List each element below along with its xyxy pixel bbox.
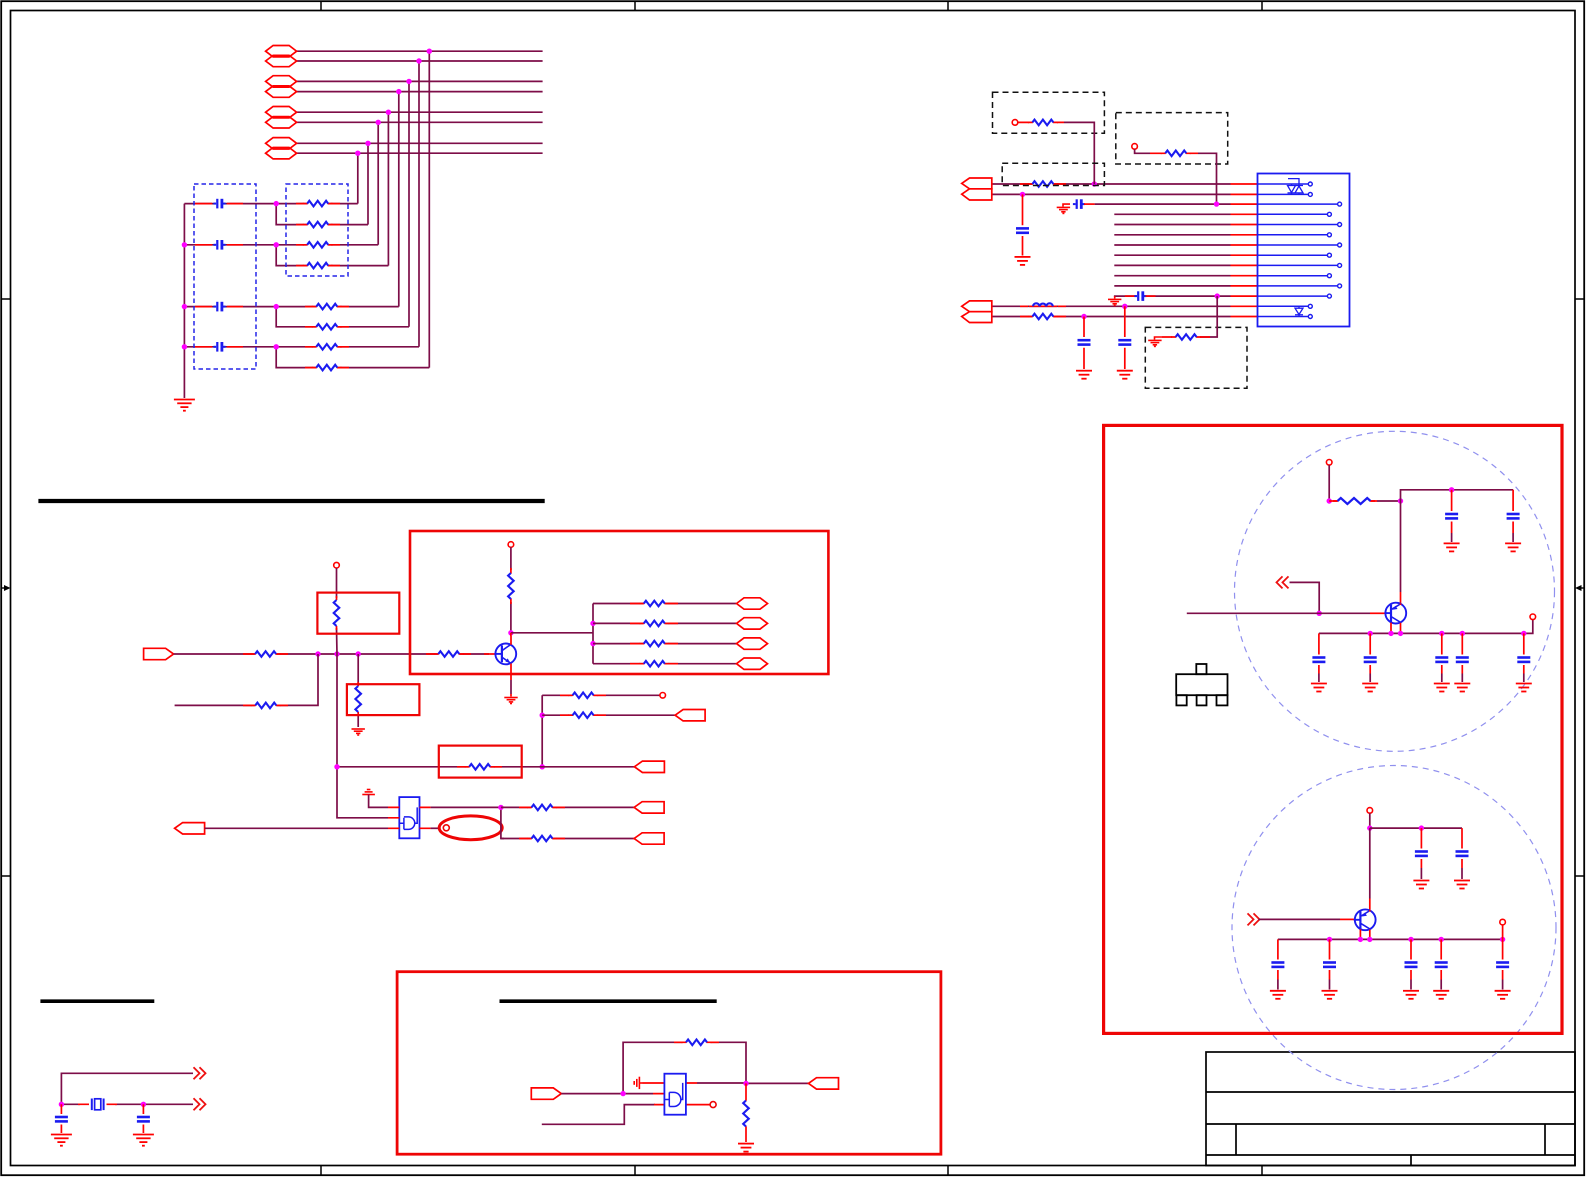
pin circle (1329.4,255.2) (1327, 253, 1331, 257)
wire TP2 drop (1135, 149, 1150, 153)
junction rail-dots-2 (1391,633.4) (1388, 631, 1393, 636)
section title bar (38, 499, 544, 503)
vertical drop C-D (276, 245, 388, 266)
pin circle (1329.4,234.8) (1327, 233, 1331, 237)
rail cap L2 (1322, 939, 1338, 998)
zone tick top 3 (947, 1, 949, 11)
capacitor C9 (1078, 340, 1091, 344)
fan row1 (593, 601, 736, 607)
junction rail-dots-3 (1400.5,633.4) (1398, 631, 1403, 636)
wire row5 (297, 111, 543, 113)
wire row3 (297, 80, 543, 82)
row 808 right (501, 805, 634, 811)
junction junction-dots-col2-2 (276.2,244.8) (274, 242, 279, 247)
junction rail-dots-lower-5 (1441.2,939.4) (1439, 937, 1444, 942)
red leads resistors EH (305, 307, 349, 368)
junction dot out (743, 1081, 748, 1086)
ground G6 (1117, 371, 1133, 379)
dashed box B (1116, 113, 1228, 164)
fan row2 (593, 621, 736, 627)
terminal right upper (1530, 614, 1536, 620)
junction dot supply bus row767 (334, 764, 339, 769)
gate U2 and-shape (400, 807, 418, 829)
rail cap L3 (1403, 939, 1419, 998)
top cap rail lower (1370, 827, 1462, 829)
ground G12 (133, 1135, 154, 1146)
junction junction-dots-col2-1 (276.2,203.6) (274, 201, 279, 206)
red leads resistor R14 (243, 653, 288, 655)
capacitor C6 row3 (1073, 199, 1095, 209)
terminal right lower (1500, 919, 1506, 925)
rail cap L1 (1270, 939, 1286, 998)
red leads caps (195, 204, 243, 347)
junction junction-dots-bus-1 (184.4,244.8) (182, 242, 187, 247)
junction dot supply2 (1367, 825, 1372, 830)
cap drop 2 (1505, 490, 1521, 552)
emitter stub (510, 664, 512, 681)
resistor R8 (312, 365, 342, 371)
transistor Q2 (1384, 603, 1406, 624)
capacitor C10 (55, 1117, 68, 1121)
testpoint TP2 (1132, 144, 1138, 150)
zone tick top 2 (634, 1, 636, 11)
junction dot row3 (1214, 201, 1219, 206)
junction junction-dots-on-rows-7 (368.0,143.3) (365, 141, 370, 146)
NC circle output (710, 1102, 716, 1108)
wire row3 (1095, 203, 1231, 205)
NC circle (443, 825, 449, 831)
wire vertical tap row6 (377, 122, 379, 245)
wire row12 (1114, 295, 1231, 297)
junction dot row1 (1092, 181, 1097, 186)
junction dot row2 (1020, 192, 1025, 197)
Q3 pin stubs (1360, 910, 1369, 939)
cap drop 1 (1444, 490, 1460, 552)
port OUT4 (634, 833, 664, 844)
fan hexport H4 (737, 658, 768, 669)
zone tick top 1 (320, 1, 322, 11)
junction dot rail lower (1419, 825, 1424, 830)
dashed box D (1145, 327, 1247, 388)
vertical drop E-F (276, 307, 409, 327)
pin circle (1310.3,184) (1308, 182, 1312, 186)
transistor Q1 (494, 644, 516, 665)
pins rows1-2 inside (1258, 184, 1309, 194)
wire network rowE (184, 306, 276, 308)
fan hexport H1 (737, 598, 768, 609)
supply2 vertical (510, 547, 512, 633)
ground G9 (504, 698, 517, 704)
pin circle (1329.4,275.7) (1327, 274, 1331, 278)
supply terminal T4 (1367, 808, 1373, 814)
pins rows13-14 inside (1258, 306, 1309, 316)
title block (1206, 1052, 1575, 1166)
red leads resistor R21 (674, 1041, 719, 1043)
wire gate out row (697, 1082, 809, 1084)
wire row14 (992, 316, 1231, 318)
supply terminal T2 (508, 542, 514, 548)
package outline SOT (1176, 664, 1227, 705)
section title bar (500, 999, 717, 1003)
resistor R14 (251, 651, 281, 657)
ground G3 row3 (1057, 204, 1070, 213)
emitter feed vertical lower (1369, 828, 1371, 898)
bus rows 4-11 (1114, 214, 1230, 286)
pin circle (1310.3,316.5) (1308, 315, 1312, 319)
cap drop row14 (1083, 317, 1085, 370)
junction rail-dots-lower-1 (1329.5,939.4) (1327, 937, 1332, 942)
junction rail-dots-4 (1441.8,633.4) (1439, 631, 1444, 636)
row 838 right (501, 836, 634, 842)
red leads crystal (78, 1103, 117, 1105)
connector J2 lower (962, 301, 992, 323)
dashed box A (993, 92, 1105, 133)
wire rowA right (276, 203, 358, 205)
junction mid-bus-dots-2 (542.2,766.8) (540, 764, 545, 769)
collector red stub (510, 633, 512, 645)
junction dot node (1398, 498, 1403, 503)
base wire lower (1259, 918, 1341, 920)
resistor R1 (303, 201, 333, 207)
junction junction-dots-on-rows-6 (378.2,122.3) (376, 120, 381, 125)
junction junction-dots-crystal-row-1 (61.4,1104.3) (59, 1102, 64, 1107)
resistor R9 row1 (1028, 181, 1058, 187)
wire row12 to boxD resistor (1200, 296, 1217, 337)
zone tick right (1575, 299, 1584, 876)
dashed box caps (194, 184, 256, 369)
wire row6 (297, 121, 543, 123)
red leads R18 (357, 682, 359, 716)
emitter rail (1319, 620, 1533, 633)
resistor R10 (1028, 120, 1058, 126)
highlight box big right (1104, 425, 1562, 1033)
resistor R17 vertical (334, 600, 340, 626)
junction junction-dots-on-rows-2 (419.0,61.0) (416, 58, 421, 63)
wire row13 (992, 305, 1231, 307)
pin circle (1310.3,306.3) (1308, 304, 1312, 308)
red leads resistor row14 (1020, 316, 1066, 318)
chevron IN upper (1277, 576, 1289, 588)
junction rail-dots-lower-4 (1411,939.4) (1408, 937, 1413, 942)
pin circle (1339.6,204.1) (1338, 202, 1342, 206)
wire rowG right (276, 346, 419, 348)
row 695 wire (542, 693, 660, 699)
wire chevron branch (1290, 582, 1320, 613)
inductor L1 row13 (1029, 303, 1057, 306)
rail cap L5 (1495, 939, 1511, 998)
wire rowE right (276, 306, 399, 308)
resistor R13 row14 (1028, 314, 1058, 320)
ground G1 (174, 400, 195, 411)
junction junction-dots-col2-3 (276.2,306.6) (274, 304, 279, 309)
capacitor C11 (137, 1117, 150, 1121)
port P8 (266, 148, 297, 159)
top cap rail (1401, 490, 1514, 501)
junction junction-dots-bus-2 (184.4,306.6) (182, 304, 187, 309)
crystal Y1 (92, 1099, 104, 1111)
junction rail-dots-lower-2 (1360.4,939.4) (1358, 937, 1363, 942)
zone tick left (1, 299, 11, 876)
cap drop L2 (1454, 828, 1470, 888)
junction junction-dots-on-rows-1 (429.3,51.2) (427, 49, 432, 54)
pin circle (1339.6,224.5) (1338, 223, 1342, 227)
red leads resistor R23 (1329, 500, 1377, 502)
junction dot gate input (620, 1091, 625, 1096)
pin circle (1339.6,245.0) (1338, 243, 1342, 247)
resistor R16 (251, 703, 281, 709)
TVS diode pair (1288, 179, 1304, 195)
junction dot row14 (1081, 314, 1086, 319)
chevron IN lower (1248, 913, 1260, 925)
pins rows3-12 inside (1258, 204, 1338, 296)
wire row4 (297, 91, 543, 93)
dot row808 (498, 805, 503, 810)
resistor R22 drop (745, 1083, 747, 1142)
pin circle (1339.6,285.9) (1338, 284, 1342, 288)
resistor R21 (682, 1040, 712, 1046)
fan row3 (593, 641, 736, 647)
resistor R19 vertical (508, 573, 514, 599)
wire crystal row (61, 1103, 193, 1105)
gate U3 body (664, 1074, 686, 1115)
junction junction-dots-bus-3 (184.4,346.8) (182, 344, 187, 349)
capacitor C7 row12 (1125, 291, 1156, 301)
capacitor C8 (1118, 340, 1131, 344)
base wire (1187, 612, 1370, 614)
resistor R12 boxD (1171, 334, 1201, 340)
resistor R18 vertical drop (357, 654, 359, 727)
pin circle (1329.4,296.1) (1327, 294, 1331, 298)
cap drop L1 (1413, 828, 1429, 888)
cap drop right (142, 1104, 144, 1133)
junction rail-dots-lower-3 (1369.8,939.4) (1367, 937, 1372, 942)
fan hexport H3 (737, 638, 768, 649)
wire collector to fan bus (511, 632, 593, 634)
wire row1 (992, 183, 1231, 185)
rail cap 2 (1362, 633, 1378, 691)
wire network rowA (184, 203, 276, 205)
port P4 (266, 86, 297, 97)
ground G8 (352, 729, 365, 735)
junction junction-dots-on-rows-8 (357.8,153.2) (355, 151, 360, 156)
highlight box R20 (439, 746, 522, 778)
wire network rowC (184, 244, 276, 246)
ground G5 boxD (1148, 337, 1162, 346)
capacitor C5 (1016, 228, 1029, 232)
fan row4 (593, 661, 736, 667)
resistor R23 (1333, 498, 1375, 504)
capacitor C2 (214, 240, 226, 250)
ground G13 sideways (634, 1077, 642, 1089)
rail cap 4 (1454, 633, 1470, 691)
red leads resistor TP2 (1150, 152, 1198, 154)
port P3 (266, 76, 297, 87)
terminal circle row695 (660, 693, 666, 699)
supply terminal T1 (334, 562, 340, 568)
resistor R2 (303, 222, 333, 228)
junction rail-dots-6 (1523.8,633.4) (1521, 631, 1526, 636)
row 767 wire (337, 764, 634, 770)
transistor Q3 (1354, 909, 1376, 930)
Q2 pin stubs (1391, 603, 1401, 633)
port OUT1 (675, 710, 705, 721)
gate U2 body (399, 797, 419, 838)
pin circle (1329.4,214.3) (1327, 212, 1331, 216)
testpoint TP1 (1012, 120, 1018, 126)
wire supply down (1328, 465, 1330, 501)
junction fan-bus-dots-1 (593,623.4) (590, 621, 595, 626)
red leads resistor boxD (1162, 336, 1200, 338)
resistor R7 (312, 344, 342, 350)
wire row1 (297, 50, 543, 52)
junction dot supply (1327, 498, 1332, 503)
red pin stubs into connector box (1231, 184, 1258, 317)
highlight box big (397, 972, 941, 1154)
red leads resistor R15 (426, 653, 471, 655)
port IN3 (531, 1088, 561, 1099)
resistor R5 (312, 304, 342, 310)
stub input row (542, 1105, 655, 1125)
center arrow right edge (1575, 585, 1584, 591)
red leads resistor R16 (243, 704, 288, 706)
wire rowC right (276, 244, 378, 246)
wire vertical tap row8 (357, 153, 359, 203)
junction dot row13 (1122, 304, 1127, 309)
port IN2 (175, 823, 205, 834)
emitter feed vertical (1400, 501, 1402, 592)
red lead right boxD (1200, 336, 1210, 338)
wire resistor to node (1377, 500, 1401, 502)
junction junction-dots-col2-4 (276.2,346.8) (274, 344, 279, 349)
wire term to rail (1502, 925, 1504, 940)
capacitor C3 (214, 302, 226, 312)
vertical cap drop row2 (1022, 194, 1024, 255)
rail cap 3 (1434, 633, 1450, 691)
wire vertical tap row7 (367, 143, 369, 224)
resistor R22 (743, 1101, 749, 1127)
section title bar small (40, 999, 154, 1003)
vertical drop G-H (276, 347, 429, 368)
fan hexport H2 (737, 618, 768, 629)
red leads resistor row1 (1020, 183, 1066, 185)
wire network rowG (184, 346, 276, 348)
junction mid-bus-dots-1 (542.2,715.2) (540, 713, 545, 718)
port OUT3 (634, 802, 664, 813)
junction junction-dots-main-row-3 (358.2,654) (356, 651, 361, 656)
red leads resistors AB (296, 204, 340, 266)
ground G14 (738, 1144, 754, 1152)
pin circle (1339.6,265.4) (1338, 263, 1342, 267)
resistor R15 (434, 651, 464, 657)
dashed circle upper (1235, 431, 1555, 751)
feedback top wire (623, 1042, 746, 1093)
junction rail-dots-lower-6 (1502.6,939.4) (1500, 937, 1505, 942)
resistor R18 (355, 686, 361, 712)
wire vertical tap row1 (428, 51, 430, 367)
NC stub row828 (431, 827, 439, 829)
red leads inductor row13 (1020, 305, 1066, 307)
fan bus vertical (592, 604, 594, 664)
highlight box R18 (347, 684, 420, 715)
resistor R4 (303, 263, 333, 269)
resistor R6 (312, 324, 342, 330)
ground G2 (1015, 257, 1031, 265)
ground G7 (1076, 371, 1092, 379)
port P6 (266, 117, 297, 128)
junction fan-bus-dots-2 (593,643.6) (590, 641, 595, 646)
cap drop left (60, 1104, 62, 1133)
port P7 (266, 138, 297, 149)
highlight ellipse (439, 816, 502, 840)
zone tick top 4 (1261, 1, 1263, 11)
chevron OUT B (194, 1098, 206, 1110)
gate U3 and-shape (665, 1083, 683, 1107)
dashed box resistors (286, 184, 348, 276)
junction dot row12 (1215, 293, 1220, 298)
wire supply down (1369, 813, 1371, 828)
wire top row (61, 1073, 193, 1104)
supply terminal T3 (1326, 460, 1332, 466)
wire vertical tap row3 (408, 81, 410, 326)
emitter wire to ground (510, 680, 512, 694)
junction rail-dots-1 (1370.2,633.4) (1368, 631, 1373, 636)
mid bus vertical (541, 695, 543, 767)
supply vertical bus (337, 568, 389, 818)
out bus vertical (501, 807, 504, 838)
ground bus vertical (183, 204, 185, 398)
diode D1 (1295, 306, 1303, 316)
ground G10 inverted (362, 790, 388, 808)
capacitor C4 (214, 342, 226, 352)
port P5 (266, 107, 297, 118)
junction dot base wire (1317, 611, 1322, 616)
wire boxA to row1 (1064, 122, 1094, 184)
rail cap L4 (1433, 939, 1449, 998)
port P2 (266, 55, 297, 66)
vertical drop A-B (276, 204, 368, 225)
wire row2 (297, 60, 543, 62)
junction junction-dots-on-rows-5 (388.4,112.2) (386, 110, 391, 115)
center arrow left edge (1, 585, 11, 591)
port OUT2 (634, 761, 664, 772)
wire vertical tap row2 (418, 61, 420, 347)
big highlight box (410, 531, 828, 674)
resistor R11 (1161, 151, 1191, 157)
gate output wire row808 (431, 806, 501, 808)
red lead base (484, 653, 496, 655)
junction junction-dots-main-row-1 (318,654) (315, 651, 320, 656)
junction junction-dots-on-rows-3 (409.0,81.4) (406, 79, 411, 84)
highlight box R17 (317, 593, 399, 634)
wire input2 row (175, 654, 318, 705)
wire vertical tap row4 (398, 92, 400, 307)
red leads R19 (510, 568, 512, 604)
wire row7 (297, 142, 543, 144)
red leads resistor TP1 (1018, 121, 1064, 123)
row 715 wire (542, 712, 675, 718)
junction junction-dots-crystal-row-2 (143.4,1104.3) (141, 1102, 146, 1107)
wire row8 (297, 152, 543, 154)
chevron OUT A (194, 1067, 206, 1079)
wire boxB to row3 (1198, 153, 1217, 204)
connector J1 upper (962, 178, 992, 200)
dashed box C (1002, 163, 1104, 185)
gate pin stubs red (388, 807, 431, 828)
resistor R3 (303, 242, 333, 248)
port OUT5 (809, 1078, 839, 1089)
junction rail-dots-5 (1462.3,633.4) (1460, 631, 1465, 636)
gate pin stubs red (643, 1083, 711, 1105)
